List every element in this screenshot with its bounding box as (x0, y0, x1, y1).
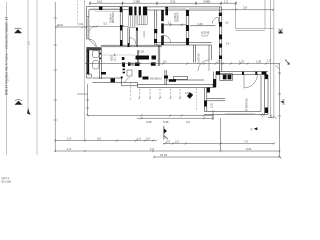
svg-text:1,5: 1,5 (224, 0, 228, 4)
svg-text:5,01: 5,01 (246, 147, 252, 151)
svg-text:2,615: 2,615 (283, 98, 286, 105)
svg-text:9,2 m²: 9,2 m² (202, 34, 209, 37)
svg-text:25,65 m²: 25,65 m² (109, 13, 112, 23)
svg-text:2: 2 (250, 128, 252, 132)
svg-text:5,36: 5,36 (163, 120, 169, 124)
svg-text:1,38: 1,38 (256, 60, 262, 64)
svg-text:M 1:100: M 1:100 (2, 180, 12, 184)
svg-text:4,58: 4,58 (185, 92, 190, 95)
svg-text:KÜCHE 8,5: KÜCHE 8,5 (150, 78, 163, 81)
svg-text:14,76 m²: 14,76 m² (174, 12, 177, 22)
svg-text:B38 34 Vlg (Bes Ind 4c Kerne +: B38 34 Vlg (Bes Ind 4c Kerne + Vsonschte… (4, 16, 8, 95)
svg-text:3,8: 3,8 (243, 5, 247, 9)
svg-text:2,0: 2,0 (175, 139, 179, 143)
svg-text:2,64: 2,64 (146, 120, 152, 124)
svg-text:1,9: 1,9 (67, 147, 71, 151)
svg-text:1,0: 1,0 (150, 147, 154, 151)
svg-text:1,9: 1,9 (67, 137, 71, 141)
svg-text:DUSCHE: DUSCHE (198, 53, 201, 64)
svg-text:7,0: 7,0 (244, 139, 248, 143)
svg-text:1,38: 1,38 (139, 51, 144, 54)
svg-text:2,0: 2,0 (217, 60, 221, 64)
svg-text:1,25: 1,25 (239, 60, 245, 64)
svg-text:TERRASSE: TERRASSE (246, 98, 249, 112)
svg-text:2,0: 2,0 (186, 120, 190, 124)
svg-text:9,01: 9,01 (58, 23, 64, 27)
svg-text:3,46: 3,46 (198, 22, 204, 26)
svg-text:3,885: 3,885 (203, 0, 210, 4)
svg-text:1,0: 1,0 (137, 137, 141, 141)
svg-text:2,0: 2,0 (146, 137, 150, 141)
svg-text:vgl 2.1: vgl 2.1 (2, 176, 10, 180)
svg-text:5,0: 5,0 (97, 137, 101, 141)
svg-text:1,2: 1,2 (267, 59, 271, 63)
svg-text:1,01: 1,01 (79, 23, 84, 26)
svg-text:3,5: 3,5 (163, 60, 167, 64)
svg-text:o.K: o.K (225, 22, 229, 25)
svg-text:3,51: 3,51 (170, 0, 176, 4)
svg-text:0,9: 0,9 (166, 139, 170, 143)
svg-text:3,385: 3,385 (133, 0, 140, 4)
svg-text:12,1 m²: 12,1 m² (113, 53, 116, 61)
svg-text:1,25: 1,25 (211, 103, 214, 108)
svg-text:FLUR: FLUR (143, 31, 146, 38)
svg-text:15,49: 15,49 (160, 153, 167, 157)
svg-text:5,01: 5,01 (97, 0, 103, 4)
